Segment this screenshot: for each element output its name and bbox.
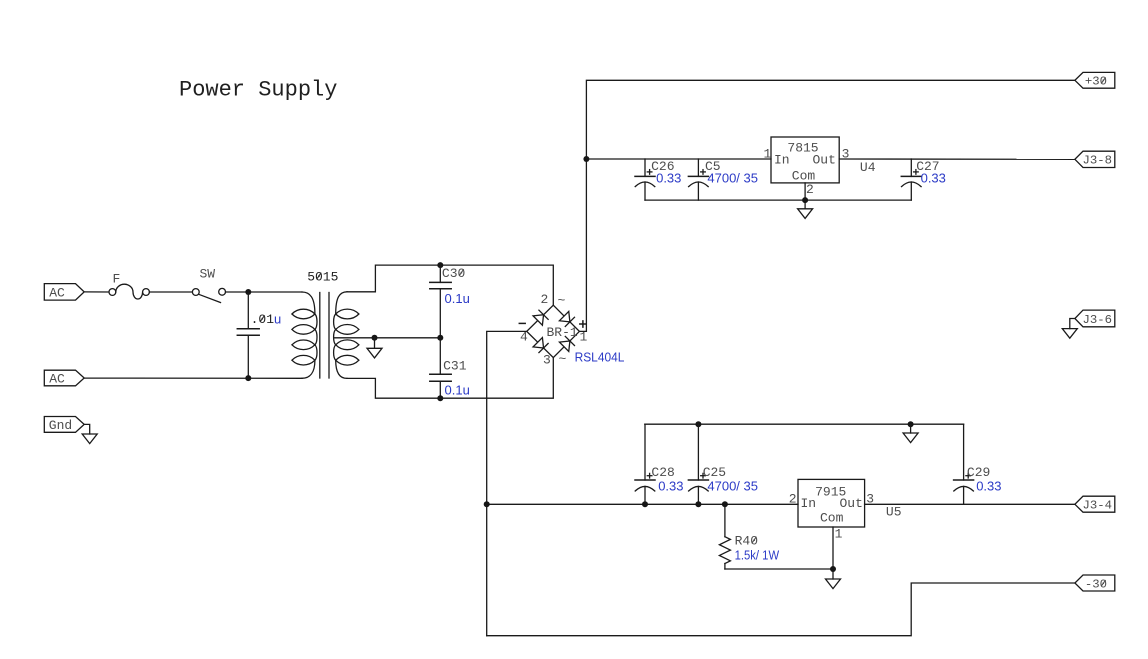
- pin 2 of U4: [806, 182, 814, 197]
- wire -30 net: [487, 583, 1075, 636]
- diode D1 top-left of BR-1: [533, 310, 548, 325]
- wire AC bottom to transformer primary: [84, 377, 302, 379]
- port J3-8: [1075, 151, 1115, 167]
- pin 3 of U5: [866, 492, 874, 507]
- pin 1 of U5: [835, 527, 843, 542]
- wire center tap: [334, 337, 440, 339]
- ground at U5 com: [826, 579, 841, 589]
- capacitor C29: [954, 424, 974, 504]
- label In of U4: [774, 153, 790, 168]
- transformer T1 primary winding: [292, 292, 317, 378]
- svg-text:0.1u: 0.1u: [445, 382, 470, 397]
- value 0.33 of C27: [921, 171, 946, 186]
- junction dot U4 input branch: [583, 156, 589, 162]
- svg-text:1: 1: [580, 330, 588, 345]
- label J3-4 port: [1083, 499, 1113, 513]
- capacitor C26: [635, 159, 655, 200]
- label J3-6 port: [1083, 313, 1113, 327]
- wire Gnd tag to ground: [84, 424, 90, 434]
- svg-text:U5: U5: [886, 505, 902, 520]
- svg-text:3: 3: [866, 492, 874, 507]
- value 0.1u of C31: [445, 382, 470, 397]
- label R40: [735, 534, 758, 549]
- junction dot C30 bottom: [437, 335, 443, 341]
- svg-text:~: ~: [558, 293, 566, 308]
- wire capacitor bottom bus top section: [645, 199, 911, 201]
- svg-text:-30: -30: [1085, 577, 1107, 591]
- label U4: [860, 160, 876, 175]
- label C25: [703, 465, 726, 480]
- junction dot C31 bottom: [437, 395, 443, 401]
- pin 1 of U4: [764, 147, 772, 162]
- svg-text:F: F: [113, 272, 121, 287]
- svg-text:~: ~: [559, 352, 567, 367]
- junction dot C25 bottom: [695, 501, 701, 507]
- resistor R40: [719, 504, 730, 569]
- capacitor C30: [430, 265, 451, 338]
- ground at Gnd tag: [82, 434, 97, 444]
- value RSL404L of BR-1: [575, 350, 625, 365]
- value 4700/35 of C5: [707, 171, 758, 186]
- label C5: [705, 159, 721, 174]
- label C26: [651, 159, 674, 174]
- value 0.33 of C26: [656, 171, 681, 186]
- regulator U5 7915 box: [798, 479, 865, 527]
- svg-text:4: 4: [520, 330, 528, 345]
- AC mark bottom of BR-1: [559, 352, 567, 367]
- label 7915 in U5 box: [815, 485, 846, 500]
- svg-text:RSL404L: RSL404L: [575, 350, 625, 365]
- pin 3 of U4: [842, 147, 850, 162]
- svg-text:4700/ 35: 4700/ 35: [707, 171, 758, 186]
- svg-text:In: In: [774, 153, 790, 168]
- wire U4 output rail: [839, 158, 1074, 160]
- label AC bottom port: [49, 372, 65, 387]
- label Out of U5: [840, 496, 863, 511]
- value 0.33 of C29: [976, 479, 1001, 494]
- slashed zero marks: [260, 77, 1106, 586]
- wire U4 input rail: [586, 158, 771, 160]
- pin 2 of BR-1: [541, 292, 549, 307]
- svg-text:Out: Out: [840, 496, 863, 511]
- port -30: [1075, 575, 1115, 591]
- wire BR-1 plus to +30 rail: [579, 80, 1075, 331]
- svg-text:J3-6: J3-6: [1083, 313, 1113, 327]
- label SW for switch: [200, 266, 216, 281]
- svg-text:0.1u: 0.1u: [445, 291, 470, 306]
- plus mark at BR-1 pin 1: [580, 321, 586, 327]
- capacitor C31: [430, 338, 451, 398]
- wire ground bus bottom section: [645, 423, 964, 425]
- svg-text:2: 2: [806, 182, 814, 197]
- junction dot bottom of .01u cap: [245, 375, 251, 381]
- svg-text:3: 3: [842, 147, 850, 162]
- svg-text:C31: C31: [443, 358, 467, 373]
- wire fuse to switch: [149, 291, 192, 293]
- junction dot C28 bottom: [642, 501, 648, 507]
- label F for fuse: [113, 272, 121, 287]
- transformer T1 core: [320, 293, 329, 379]
- label C27: [916, 159, 939, 174]
- junction dot negative net to U5 input: [484, 501, 490, 507]
- svg-text:Com: Com: [820, 511, 844, 526]
- svg-text:0.33: 0.33: [656, 171, 681, 186]
- label 5015 of transformer: [307, 270, 338, 285]
- label In of U5: [801, 496, 817, 511]
- wire U4 com lead: [804, 183, 806, 209]
- wire U5 com lead: [832, 527, 834, 579]
- diode D2 top-right of BR-1: [559, 311, 574, 326]
- svg-text:3: 3: [543, 352, 551, 367]
- junction dot ground tap bottom section: [908, 421, 914, 427]
- capacitor C5: [688, 159, 708, 200]
- port AC top: [44, 284, 84, 301]
- AC mark top of BR-1: [558, 293, 566, 308]
- label Com of U5: [820, 511, 844, 526]
- wire R40 bottom to U5 com: [725, 568, 833, 570]
- label Com of U4: [792, 169, 816, 184]
- svg-text:.01u: .01u: [251, 312, 282, 328]
- value 0.1u of C30: [445, 291, 470, 306]
- pin 4 of BR-1: [520, 330, 528, 345]
- switch SW: [192, 288, 225, 302]
- label Gnd port: [49, 418, 72, 433]
- svg-text:5015: 5015: [307, 270, 338, 285]
- junction dot U5 com: [830, 566, 836, 572]
- svg-text:+30: +30: [1085, 75, 1107, 89]
- ground at bottom section bus: [903, 424, 918, 442]
- value 1.5k/1W of R40: [735, 548, 780, 563]
- svg-text:AC: AC: [49, 372, 65, 387]
- diode D3 bottom-left of BR-1: [533, 338, 548, 353]
- svg-text:R40: R40: [735, 534, 758, 549]
- svg-text:Power Supply: Power Supply: [179, 78, 337, 103]
- port +30: [1075, 72, 1115, 88]
- junction dot center tap: [372, 335, 378, 341]
- port Gnd: [44, 417, 84, 433]
- transformer T1 secondary winding: [334, 292, 359, 379]
- svg-text:In: In: [801, 496, 817, 511]
- wire BR-1 minus to negative net: [487, 331, 527, 635]
- label J3-8 port: [1083, 154, 1113, 168]
- label BR-1: [547, 325, 578, 340]
- label -30 port: [1085, 577, 1107, 591]
- label Out of U4: [813, 153, 836, 168]
- diode D4 bottom-right of BR-1: [559, 336, 574, 351]
- svg-text:AC: AC: [49, 286, 65, 301]
- svg-text:0.33: 0.33: [921, 171, 946, 186]
- svg-text:1: 1: [764, 147, 772, 162]
- wire switch to transformer primary: [226, 291, 303, 293]
- svg-text:Gnd: Gnd: [49, 418, 72, 433]
- label 7815 in U4 box: [787, 140, 818, 155]
- svg-text:0.33: 0.33: [658, 479, 683, 494]
- fuse F: [109, 284, 149, 299]
- title Power Supply: [179, 78, 337, 103]
- value .01u: [251, 312, 282, 328]
- wire U5 input rail: [487, 503, 798, 505]
- label C28: [651, 465, 674, 480]
- svg-text:J3-8: J3-8: [1083, 154, 1113, 168]
- bridge rectifier BR-1 diamond: [527, 305, 580, 357]
- svg-text:0.33: 0.33: [976, 479, 1001, 494]
- minus mark at BR-1 pin 4: [519, 322, 525, 324]
- junction dot top of .01u cap: [245, 289, 251, 295]
- label C29: [967, 465, 990, 480]
- port J3-4: [1075, 496, 1115, 512]
- wire secondary bottom to bridge: [347, 358, 553, 399]
- label C30: [442, 266, 465, 281]
- junction dot C25 top: [695, 421, 701, 427]
- regulator U4 7815 box: [771, 137, 839, 183]
- junction dot U4 com: [802, 197, 808, 203]
- capacitor C27: [901, 159, 921, 200]
- svg-text:SW: SW: [200, 266, 216, 281]
- svg-text:C30: C30: [442, 266, 465, 281]
- svg-text:2: 2: [541, 292, 549, 307]
- pin 3 of BR-1: [543, 352, 551, 367]
- capacitor C25: [688, 424, 708, 504]
- ground at center tap: [367, 338, 382, 358]
- svg-text:J3-4: J3-4: [1083, 499, 1113, 513]
- ground at U4 com: [798, 209, 813, 219]
- capacitor C28: [635, 424, 655, 504]
- svg-text:1: 1: [835, 527, 843, 542]
- port AC bottom: [44, 370, 84, 386]
- wire U5 output rail: [865, 503, 1075, 505]
- value 0.33 of C28: [658, 479, 683, 494]
- label AC top port: [49, 286, 65, 301]
- svg-text:4700/ 35: 4700/ 35: [707, 479, 758, 494]
- wire secondary top to bridge: [347, 265, 553, 305]
- svg-text:1.5k/ 1W: 1.5k/ 1W: [735, 548, 780, 563]
- pin 2 of U5: [789, 492, 797, 507]
- label U5: [886, 505, 902, 520]
- value 4700/35 of C25: [707, 479, 758, 494]
- junction dot C30 top: [437, 262, 443, 268]
- wire J3-6 to ground: [1070, 319, 1075, 329]
- label C31: [443, 358, 467, 373]
- pin 1 of BR-1: [580, 330, 588, 345]
- svg-text:2: 2: [789, 492, 797, 507]
- junction dot R40 top: [722, 501, 728, 507]
- svg-text:Out: Out: [813, 153, 836, 168]
- svg-text:U4: U4: [860, 160, 876, 175]
- wire AC to fuse: [84, 291, 109, 293]
- label +30 port: [1085, 75, 1107, 89]
- ground at J3-6: [1062, 329, 1077, 339]
- capacitor .01u: [237, 292, 259, 378]
- port J3-6: [1075, 310, 1115, 327]
- svg-text:BR-1: BR-1: [547, 325, 578, 340]
